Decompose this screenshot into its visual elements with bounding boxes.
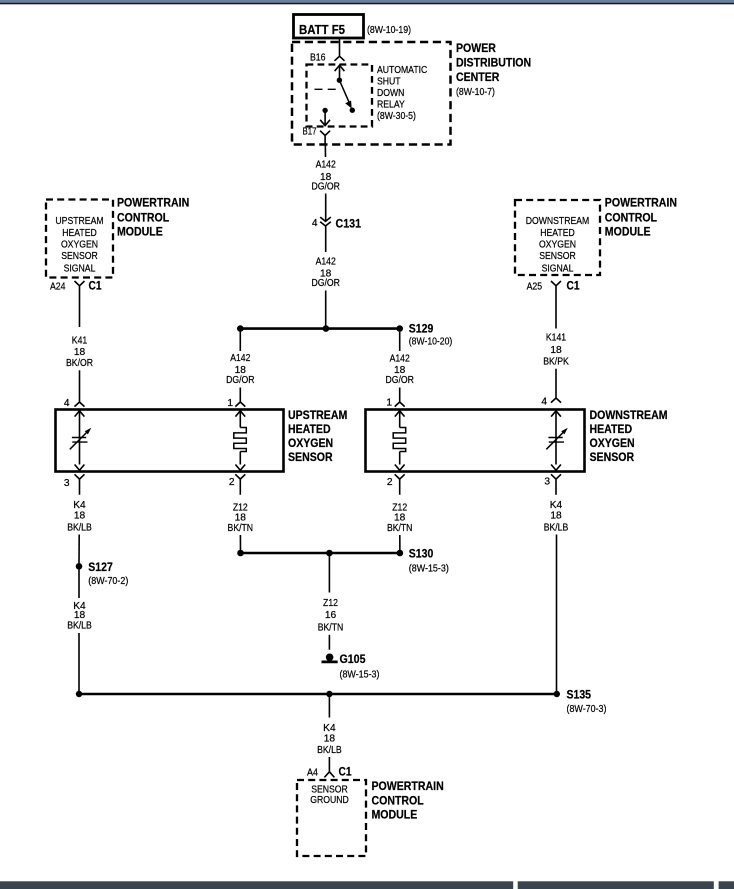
relay NO contact: [350, 108, 355, 113]
wire BATT F5 to B16: [339, 38, 341, 56]
svg-text:SIGNAL: SIGNAL: [542, 263, 574, 274]
svg-text:CONTROL: CONTROL: [117, 211, 169, 225]
svg-text:BK/LB: BK/LB: [544, 523, 569, 534]
page footer bar: [0, 881, 513, 889]
svg-text:HEATED: HEATED: [590, 422, 633, 436]
svg-text:BK/LB: BK/LB: [67, 523, 92, 534]
svg-text:(8W-10-7): (8W-10-7): [456, 87, 495, 98]
svg-text:BK/LB: BK/LB: [317, 745, 342, 756]
svg-text:DG/OR: DG/OR: [312, 278, 340, 289]
svg-text:POWER: POWER: [456, 41, 496, 55]
svg-text:DG/OR: DG/OR: [312, 181, 340, 192]
svg-text:(8W-10-20): (8W-10-20): [409, 337, 453, 348]
svg-text:A142: A142: [316, 256, 336, 267]
splice S129: [240, 327, 399, 330]
svg-text:18: 18: [550, 345, 562, 356]
svg-text:MODULE: MODULE: [605, 225, 651, 239]
svg-text:SENSOR: SENSOR: [288, 450, 333, 464]
svg-text:(8W-70-2): (8W-70-2): [88, 576, 128, 587]
svg-text:18: 18: [74, 510, 86, 521]
svg-text:UPSTREAM: UPSTREAM: [288, 408, 347, 422]
relay switch blade: [339, 80, 349, 103]
svg-text:2: 2: [229, 477, 235, 488]
wire Z12 16 BK/TN to ground: [328, 556, 330, 593]
svg-text:HEATED: HEATED: [62, 228, 97, 239]
svg-text:C1: C1: [567, 279, 580, 293]
svg-text:S130: S130: [409, 547, 434, 561]
svg-text:DISTRIBUTION: DISTRIBUTION: [456, 56, 531, 70]
svg-text:AUTOMATIC: AUTOMATIC: [377, 65, 427, 76]
svg-text:BK/TN: BK/TN: [228, 523, 254, 534]
wire K141 18 BK/PK: [555, 298, 557, 329]
svg-text:OXYGEN: OXYGEN: [590, 436, 635, 450]
svg-text:UPSTREAM: UPSTREAM: [55, 216, 103, 227]
relay output contact: [322, 108, 327, 113]
svg-text:POWERTRAIN: POWERTRAIN: [372, 779, 444, 793]
svg-text:4: 4: [64, 398, 70, 409]
svg-text:BK/TN: BK/TN: [387, 523, 413, 534]
svg-text:B17: B17: [303, 127, 317, 138]
svg-text:OXYGEN: OXYGEN: [539, 240, 576, 251]
svg-text:C1: C1: [89, 279, 102, 293]
junction to PCM sensor ground: [326, 691, 332, 697]
power distribution center box: [292, 42, 451, 145]
svg-text:Z12: Z12: [323, 598, 338, 609]
svg-text:MODULE: MODULE: [117, 225, 163, 239]
svg-text:BK/PK: BK/PK: [543, 356, 569, 367]
upstream sensing element: [79, 411, 81, 465]
svg-text:OXYGEN: OXYGEN: [61, 240, 98, 251]
svg-text:BK/TN: BK/TN: [318, 623, 344, 634]
svg-text:A142: A142: [316, 160, 336, 171]
ground bus wire: [79, 693, 557, 696]
svg-text:CENTER: CENTER: [456, 70, 500, 84]
wire A142 to upstream sensor pin 1: [239, 332, 241, 351]
svg-text:SENSOR: SENSOR: [539, 251, 576, 262]
svg-text:A25: A25: [527, 282, 543, 293]
svg-text:K4: K4: [550, 500, 563, 511]
wire K41 18 BK/OR: [79, 298, 81, 328]
downstream sensing element: [555, 411, 557, 465]
svg-text:DOWN: DOWN: [377, 88, 404, 99]
svg-text:18: 18: [324, 733, 336, 744]
svg-text:A4: A4: [307, 768, 318, 779]
svg-text:16: 16: [325, 610, 337, 621]
svg-text:A142: A142: [390, 354, 410, 365]
powertrain control module downstream signal box: [515, 200, 600, 275]
svg-text:MODULE: MODULE: [372, 808, 418, 822]
svg-text:C1: C1: [339, 765, 352, 779]
svg-text:(8W-30-5): (8W-30-5): [377, 111, 416, 122]
svg-text:A142: A142: [230, 353, 250, 364]
downstream heater element: [399, 411, 401, 428]
svg-text:HEATED: HEATED: [540, 228, 575, 239]
svg-text:SIGNAL: SIGNAL: [64, 263, 96, 274]
svg-text:A24: A24: [50, 282, 66, 293]
splice S130: [241, 552, 400, 555]
svg-text:DOWNSTREAM: DOWNSTREAM: [526, 216, 590, 227]
svg-text:18: 18: [550, 510, 562, 521]
splice S127: [76, 563, 83, 570]
svg-text:OXYGEN: OXYGEN: [288, 436, 333, 450]
wire B17 out of PDC: [324, 144, 326, 157]
svg-text:SENSOR: SENSOR: [590, 450, 635, 464]
svg-text:HEATED: HEATED: [288, 422, 331, 436]
svg-text:S135: S135: [567, 688, 592, 702]
wire C131 to label: [325, 226, 327, 252]
svg-text:POWERTRAIN: POWERTRAIN: [117, 196, 189, 210]
fuse BATT F5: [294, 15, 364, 39]
svg-text:4: 4: [312, 218, 318, 229]
relay coil actuator dashed line: [315, 88, 342, 90]
wire K4 18 BK/LB to PCM: [328, 697, 330, 718]
svg-text:18: 18: [74, 347, 86, 358]
svg-text:1: 1: [386, 398, 392, 409]
svg-text:3: 3: [544, 477, 550, 488]
automatic shut down relay K1 box: [307, 65, 373, 127]
page header bar: [0, 0, 734, 3]
downstream heated oxygen sensor box: [366, 410, 585, 472]
svg-text:BK/LB: BK/LB: [67, 621, 92, 632]
svg-text:G105: G105: [340, 652, 366, 666]
splice S135: [554, 691, 560, 697]
svg-text:S127: S127: [88, 560, 113, 574]
svg-text:DG/OR: DG/OR: [226, 375, 254, 386]
svg-text:(8W-10-19): (8W-10-19): [367, 25, 411, 36]
svg-text:1: 1: [227, 398, 233, 409]
svg-text:K141: K141: [546, 333, 566, 344]
svg-text:CONTROL: CONTROL: [372, 793, 424, 807]
svg-text:3: 3: [64, 478, 70, 489]
junction at S127 branch: [76, 691, 82, 697]
svg-text:DOWNSTREAM: DOWNSTREAM: [590, 408, 668, 422]
svg-text:4: 4: [541, 397, 547, 408]
ground G105: [326, 654, 334, 662]
svg-text:K41: K41: [72, 336, 88, 347]
svg-text:SHUT: SHUT: [377, 77, 401, 88]
svg-text:(8W-70-3): (8W-70-3): [567, 704, 607, 715]
svg-text:C131: C131: [336, 217, 362, 231]
powertrain control module sensor ground box: [297, 780, 366, 856]
svg-text:(8W-15-3): (8W-15-3): [409, 564, 449, 575]
svg-text:(8W-15-3): (8W-15-3): [340, 670, 380, 681]
svg-text:BATT F5: BATT F5: [299, 22, 345, 37]
svg-text:POWERTRAIN: POWERTRAIN: [605, 196, 677, 210]
wire A142 to downstream sensor pin 1: [399, 332, 401, 351]
upstream heated oxygen sensor box: [56, 410, 284, 472]
svg-text:BK/OR: BK/OR: [66, 358, 93, 369]
svg-text:S129: S129: [409, 322, 434, 336]
svg-text:RELAY: RELAY: [377, 100, 405, 111]
relay common contact: [337, 78, 342, 83]
svg-text:SENSOR: SENSOR: [61, 251, 98, 262]
svg-text:DG/OR: DG/OR: [386, 375, 414, 386]
upstream heater element: [239, 411, 241, 428]
svg-text:K4: K4: [73, 500, 86, 511]
svg-text:2: 2: [387, 477, 393, 488]
svg-text:B16: B16: [310, 53, 326, 64]
svg-text:GROUND: GROUND: [310, 795, 349, 806]
svg-text:CONTROL: CONTROL: [605, 211, 657, 225]
powertrain control module upstream signal box: [46, 200, 113, 278]
